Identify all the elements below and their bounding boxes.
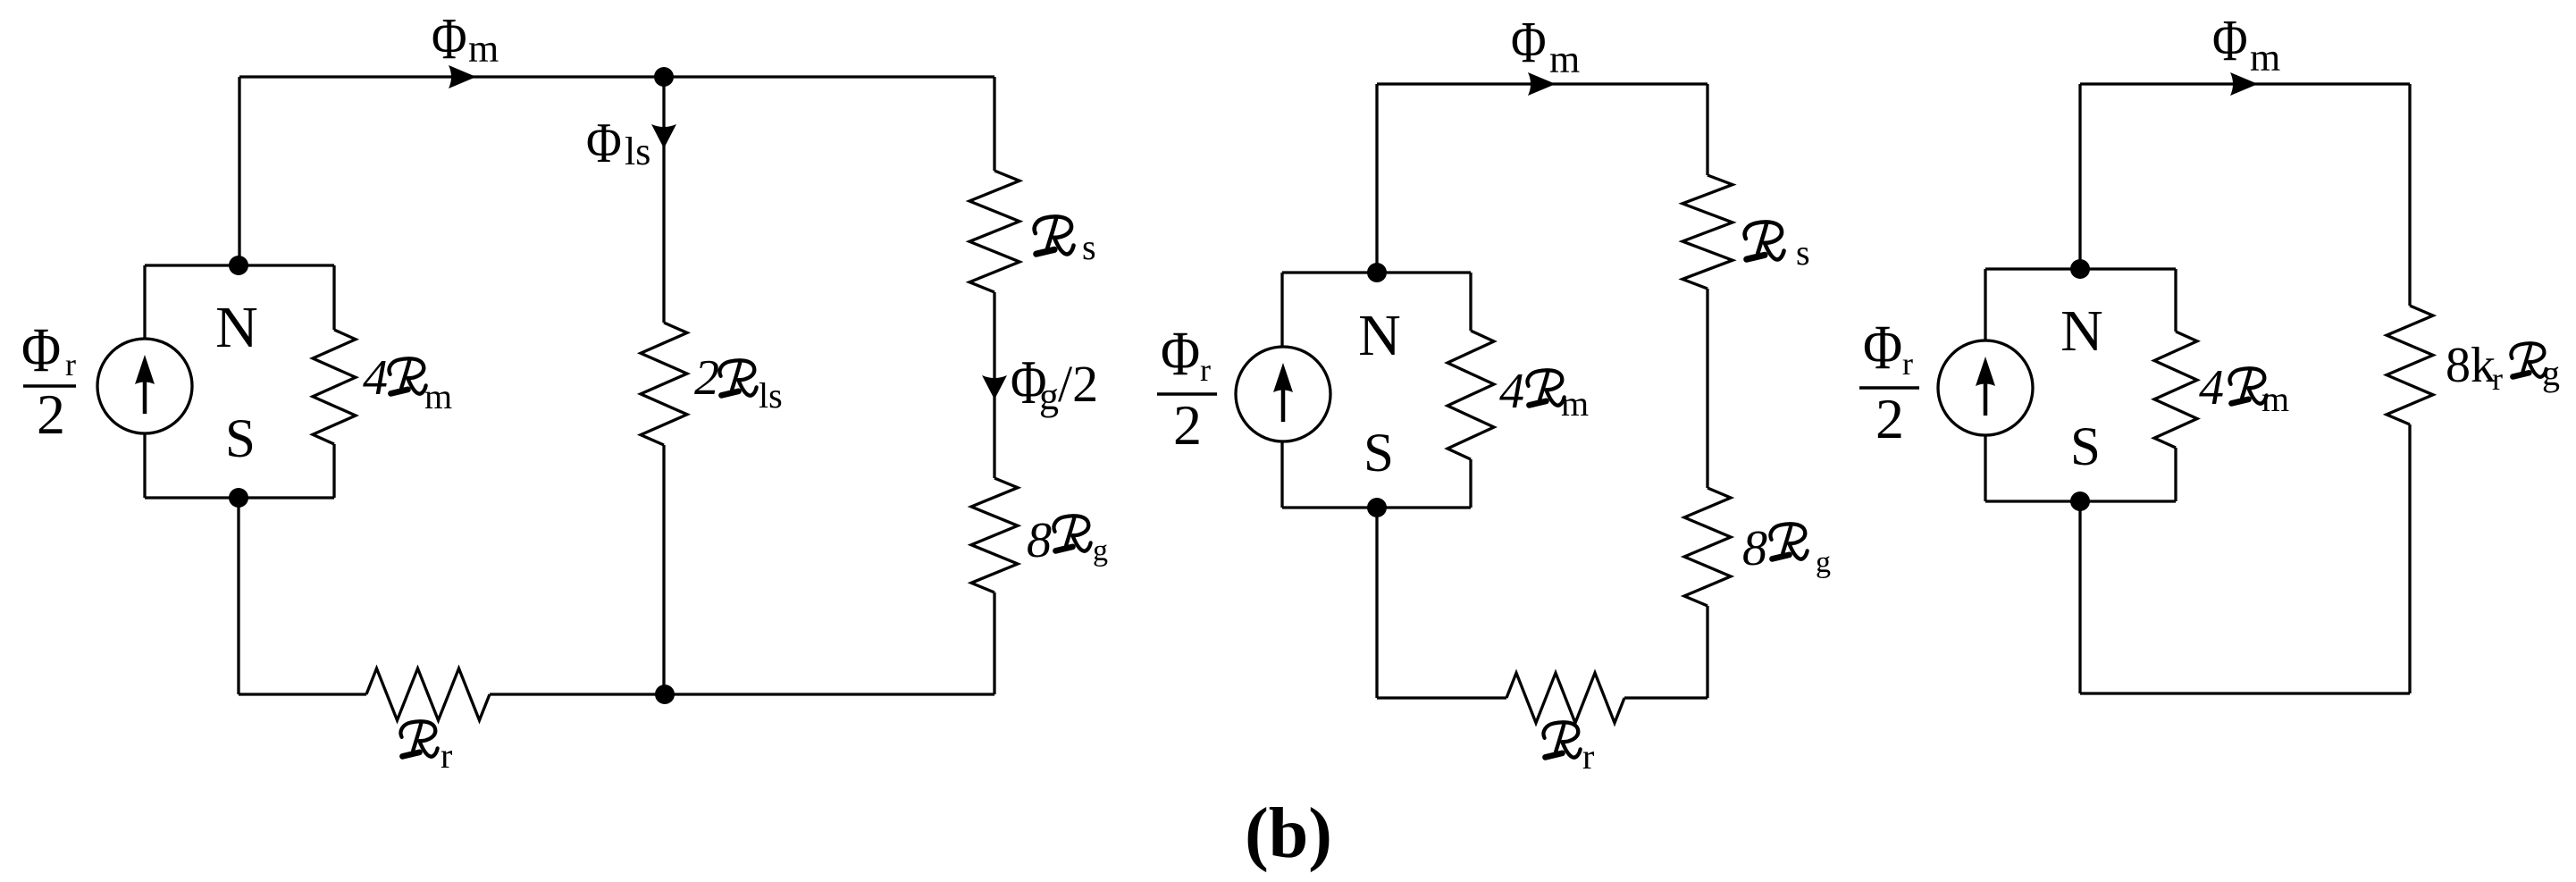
svg-text:Φ: Φ [1863,313,1902,383]
resistor 2Rls circuit1 [641,323,687,445]
svg-text:m: m [1549,38,1580,81]
wire circuit2 right branch lower [1706,606,1708,698]
value label Rs circuit2 [1745,222,1784,259]
wire circuit2 bottom rail right [1624,696,1708,699]
wire circuit3 right branch upper [2408,84,2411,306]
wire circuit1 right branch mid lower [993,399,995,478]
wire box2 right edge upper [1469,273,1472,331]
wire box1 left edge lower [143,433,146,498]
resistor Rs circuit1 [969,171,1019,292]
svg-text:N: N [2060,298,2103,364]
svg-text:8: 8 [1027,513,1052,568]
node junction box3 top [2070,259,2090,279]
wire circuit2 bottom rail left [1377,696,1506,699]
svg-text:g: g [2542,353,2560,393]
resistor 4Rm circuit1 [313,330,356,444]
svg-text:S: S [225,409,256,469]
resistor Rs circuit2 [1682,175,1733,289]
flux source Phi_r/2 circuit1 [97,339,192,433]
svg-text:m: m [424,376,452,416]
wire circuit1 right branch mid upper [993,292,995,399]
svg-text:s: s [1796,232,1810,273]
svg-text:Φ: Φ [1511,10,1547,75]
svg-text:Φ: Φ [1161,319,1200,390]
svg-text:r: r [1902,346,1913,382]
svg-text:g: g [1093,534,1108,567]
svg-text:ls: ls [759,375,783,416]
flux direction arrow Phi_m circuit2 [1528,72,1556,96]
svg-text:Φ: Φ [586,111,622,174]
node junction top rail / leakage branch circuit1 [654,67,674,87]
wire box1 right edge upper [332,265,335,330]
resistor 4Rm circuit3 [2154,332,2197,448]
wire box3 left edge lower [1984,435,1986,501]
wire circuit2 left drop [1375,84,1378,273]
svg-text:N: N [1358,303,1401,368]
wire circuit1 leakage branch upper [662,77,665,323]
wire box3 left edge upper [1984,269,1986,340]
svg-text:8: 8 [1742,521,1767,576]
wire circuit3 bottom rail [2080,692,2410,694]
svg-text:S: S [2070,417,2101,477]
svg-text:2: 2 [37,382,65,446]
svg-text:S: S [1364,424,1394,483]
wire circuit2 top rail [1377,82,1708,85]
flux direction arrow Phi_m circuit3 [2230,72,2258,96]
svg-text:2: 2 [1875,387,1904,450]
resistor 8krRg circuit3 [2387,306,2433,424]
wire box1 right edge lower [332,444,335,498]
wire circuit1 leakage branch lower [662,445,665,694]
wire circuit1 bottom rail left [239,693,366,695]
node junction box1 top [229,256,248,275]
wire box2 left edge upper [1280,273,1283,347]
svg-text:ls: ls [625,130,650,173]
svg-text:g: g [1039,374,1059,418]
flux direction arrow Phi_ls circuit1 [651,124,676,148]
node junction box2 top [1367,263,1387,282]
svg-text:4: 4 [1499,364,1524,419]
flux direction arrow Phi_g/2 circuit1 [982,375,1007,399]
wire box3 right edge lower [2174,448,2177,501]
wire box1 left edge upper [143,265,146,339]
wire box3 top edge [1985,267,2176,270]
wire circuit2 right branch upper [1706,84,1708,175]
wire circuit1 left drop [238,77,240,265]
wire circuit3 top rail [2080,82,2410,85]
wire circuit2 right branch middle [1706,289,1708,488]
value label Rr circuit1 [400,721,437,756]
svg-text:4: 4 [363,350,388,406]
flux source Phi_r/2 circuit3 [1938,340,2033,435]
svg-text:8k: 8k [2446,338,2496,393]
wire circuit1 bottom rail right [490,693,994,695]
resistor Rr circuit2 [1506,673,1624,723]
svg-text:s: s [1082,227,1096,267]
svg-text:4: 4 [2199,360,2224,416]
svg-text:r: r [1200,352,1211,388]
svg-text:Φ: Φ [2212,8,2248,73]
svg-text:r: r [2492,361,2503,397]
node junction box2 bottom [1367,498,1387,517]
svg-text:Φ: Φ [21,315,61,386]
svg-text:Φ: Φ [432,6,467,71]
svg-text:r: r [65,347,76,382]
svg-text:m: m [2250,36,2280,80]
wire circuit1 right branch lower [993,592,995,694]
resistor 4Rm circuit2 [1447,331,1494,459]
node junction bottom rail / leakage branch circuit1 [655,685,675,704]
svg-text:m: m [468,27,499,71]
flux source Phi_r/2 circuit2 [1236,347,1330,441]
wire box1 bottom edge [145,496,334,499]
svg-text:(b): (b) [1245,794,1332,873]
wire box3 right edge upper [2174,269,2177,332]
wire box3 bottom edge [1985,500,2176,502]
wire box2 bottom edge [1282,506,1471,508]
svg-text:g: g [1816,546,1831,579]
wire circuit2 bottom drop [1375,508,1378,698]
node junction box1 bottom [229,488,248,508]
svg-text:/2: /2 [1058,355,1098,413]
svg-text:2: 2 [694,350,719,406]
wire circuit1 top rail [239,75,994,78]
wire box2 left edge lower [1280,441,1283,508]
wire circuit1 right branch upper [993,77,995,171]
resistor Rr circuit1 [366,668,490,720]
svg-text:m: m [2261,379,2289,419]
wire circuit3 left drop [2078,84,2081,269]
wire circuit3 right branch lower [2408,424,2411,693]
wire box2 right edge lower [1469,459,1472,508]
node junction box3 bottom [2070,491,2090,511]
resistor 8Rg circuit1 [971,478,1018,592]
svg-text:m: m [1561,383,1589,424]
svg-text:2: 2 [1173,393,1202,457]
svg-text:N: N [215,295,258,360]
svg-text:r: r [1582,736,1594,777]
flux direction arrow Phi_m circuit1 [449,65,476,88]
resistor 8Rg circuit2 [1684,488,1731,606]
value label Rr circuit2 [1543,722,1580,757]
wire circuit1 bottom drop [237,498,239,694]
svg-text:r: r [441,735,452,776]
wire circuit3 bottom drop [2078,501,2081,693]
wire box2 top edge [1282,271,1471,273]
value label Rs circuit1 [1035,216,1074,254]
wire box1 top edge [145,264,334,266]
